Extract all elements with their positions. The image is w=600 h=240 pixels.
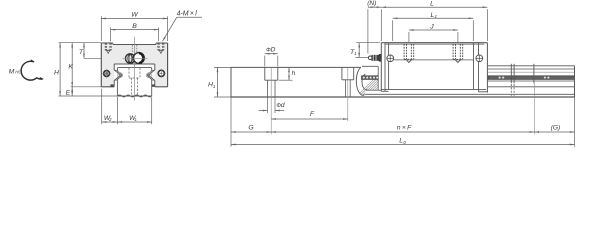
svg-text:G: G bbox=[248, 124, 253, 131]
svg-text:K: K bbox=[68, 63, 73, 70]
svg-text:J: J bbox=[429, 23, 434, 30]
svg-text:H: H bbox=[54, 69, 59, 76]
svg-text:E: E bbox=[66, 89, 71, 96]
svg-text:1: 1 bbox=[435, 14, 438, 19]
svg-text:n × F: n × F bbox=[397, 125, 412, 132]
svg-text:W: W bbox=[131, 12, 138, 19]
svg-text:L: L bbox=[430, 0, 434, 7]
svg-text:ΦD: ΦD bbox=[266, 46, 276, 53]
svg-text:M: M bbox=[9, 69, 15, 76]
svg-text:4-M × l: 4-M × l bbox=[177, 10, 198, 17]
svg-text:Φd: Φd bbox=[276, 102, 285, 109]
svg-text:(G): (G) bbox=[551, 125, 561, 132]
svg-text:h: h bbox=[292, 70, 296, 77]
svg-text:0: 0 bbox=[403, 140, 406, 145]
svg-text:2: 2 bbox=[108, 117, 112, 122]
svg-text:(N): (N) bbox=[367, 0, 376, 7]
svg-text:B: B bbox=[132, 23, 137, 30]
